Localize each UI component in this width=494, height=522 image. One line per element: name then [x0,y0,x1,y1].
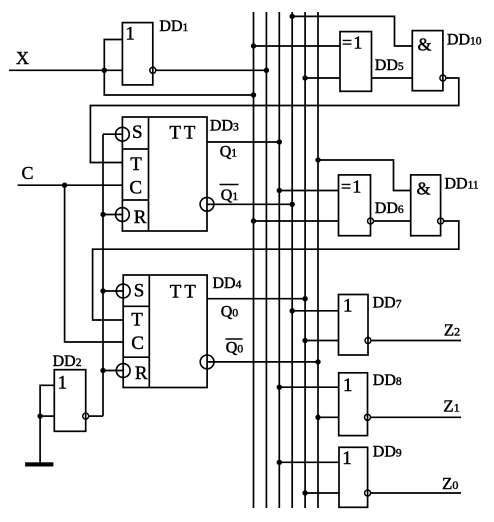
svg-text:=1: =1 [342,33,364,53]
wire Q1 output to bus line 3 [207,141,279,143]
wire to DD3 S bubble [103,133,122,135]
node chain DD3 R [100,212,105,217]
wire to DD4 S bubble [103,290,123,292]
node bus1 tap DD5 [251,43,256,48]
svg-text:S: S [132,122,143,143]
svg-text:&: & [418,34,432,54]
flip-flop DD3 [122,117,207,231]
xor gate DD6 [339,175,371,236]
ground [25,462,53,466]
node chain DD4 S [100,288,105,293]
bus line 5 (Q0) [304,12,306,508]
wire DD2 output to S/R chain [89,415,103,417]
bubble DD4 notQ0 output [200,355,214,369]
wire X upper branch to DD1 [104,40,122,71]
wire DD5 output to DD10 [372,77,413,79]
node Q0 on bus 5 [302,296,307,301]
node bus1 tap DD6 [251,218,256,223]
svg-text:T: T [130,154,142,175]
node X to DD1 inputs [102,68,107,73]
bubble DD4 S input [116,284,130,298]
svg-text:T: T [184,281,196,302]
node bus4 tap DD7 [290,308,295,313]
svg-text:1: 1 [343,296,353,317]
bubble DD7 output [365,338,371,344]
svg-text:C: C [22,163,34,183]
wire bus5 to DD5 lower input [305,77,340,79]
node bus3 tap DD9 [277,460,282,465]
node Q1 on bus 3 [277,139,282,144]
wire bus3 to DD6 upper input [279,190,338,192]
svg-text:X: X [16,48,29,68]
bubble DD6 output [368,218,374,224]
wire Z2 output [371,340,461,342]
wire input C [18,184,123,186]
wire DD11 output feedback to DD4 T input [93,221,459,320]
nand gate DD11 [411,175,441,236]
wire bus4 to DD7 upper input [292,310,338,312]
node bus5 tap DD5 [302,75,307,80]
node bus4 tap top [290,14,295,19]
node bus6 tap DD8 [315,415,320,420]
nor gate DD7 [339,295,369,356]
wire DD2 upper input [40,385,54,462]
wire bus3 to DD9 upper input [279,461,339,463]
node bus6 tap DD11 [315,157,320,162]
svg-text:1: 1 [58,372,68,393]
svg-text:T: T [184,123,196,144]
wire bus5 to DD7 lower input [305,340,338,342]
wire notQ0 output to bus line 6 [207,361,318,363]
bus line 6 (notQ0) [317,12,319,508]
node bus5 tap DD9 [302,490,307,495]
wire bus4 to DD10 upper input [292,16,412,46]
nor gate DD8 [339,373,368,436]
wire bus6 to DD8 lower input [318,416,339,418]
bus line 4 (notQ1) [291,12,293,508]
wire X down to bus line 1 [104,70,253,95]
wire input X [9,69,122,71]
svg-text:1: 1 [343,375,353,396]
wire C down to DD4 C input [65,185,124,342]
svg-text:1: 1 [125,24,134,45]
bubble DD10 output [440,75,446,81]
node C junction [62,183,67,188]
svg-text:C: C [131,333,144,354]
wire bus5 to DD9 lower input [305,492,339,494]
bus line 3 (Q1) [278,12,280,508]
svg-text:C: C [129,178,142,199]
wire to DD3 R bubble [103,214,122,216]
wire DD2 lower input [40,415,54,417]
bubble DD4 R input [116,364,130,378]
node X on bus 1 [251,92,256,97]
svg-text:&: & [417,179,431,199]
bubble DD11 output [438,218,444,224]
svg-text:=1: =1 [341,177,363,197]
wire DD10 output feedback to DD3 T input [90,78,458,163]
svg-text:T: T [131,310,143,331]
node DD2 input junction [37,413,42,418]
wire DD6 output to DD11 [374,220,411,222]
xor gate DD5 [340,32,372,92]
flip-flop DD4 [123,275,207,388]
wire bus1 to DD5 upper input [254,45,341,47]
bubble DD2 output [83,413,89,419]
svg-text:R: R [134,207,147,228]
node bus5 tap DD7 [302,338,307,343]
svg-text:T: T [170,281,182,302]
bubble DD3 S input [116,127,130,141]
svg-text:1: 1 [342,448,352,469]
wire S/R chain vertical [102,134,104,416]
node notX on bus 2 [264,68,269,73]
wire bus3 to DD8 upper input [279,386,338,388]
bubble DD1 output [150,67,156,73]
wire notQ1 output to bus line 4 [207,203,292,205]
wire to DD4 R bubble [103,370,123,372]
bus line 2 (notX) [265,12,267,508]
node bus3 tap DD6 [277,188,282,193]
wire Q0 output to bus line 5 [207,298,305,300]
nand gate DD10 [412,31,443,91]
wire Z1 output [371,416,461,418]
node chain DD4 R [100,368,105,373]
bus line 1 (X) [253,12,255,508]
inverter DD1 [122,23,152,85]
wire bus6 to DD11 upper input [318,160,411,191]
wire bus1 to DD6 lower input [254,220,339,222]
bubble DD8 output [365,414,371,420]
svg-text:R: R [135,363,148,384]
bubble DD3 R input [116,208,130,222]
svg-text:T: T [169,123,181,144]
node bus3 tap DD8 [277,385,282,390]
node notQ1 on bus 4 [290,202,295,207]
wire DD1 output to bus line 2 [156,69,267,71]
bubble DD3 notQ1 output [200,197,214,211]
bubble DD9 output [365,490,371,496]
inverter DD2 [54,370,85,432]
svg-text:S: S [134,281,145,302]
wire Z0 output [371,492,461,494]
node notQ0 on bus 6 [315,359,320,364]
nor gate DD9 [339,447,368,507]
